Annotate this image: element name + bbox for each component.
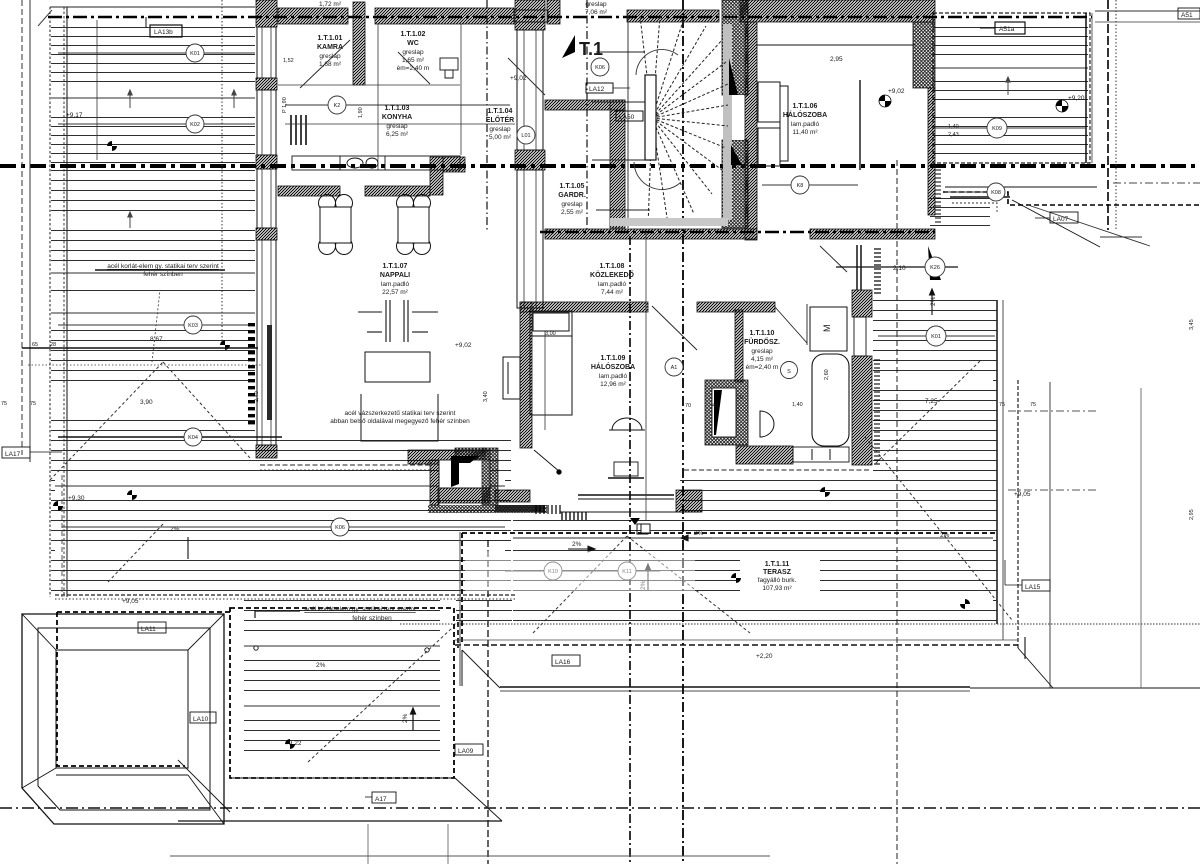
wall bedroom6 right upper (913, 22, 935, 88)
svg-text:K02: K02 (190, 122, 200, 128)
svg-text:ELŐTÉR: ELŐTÉR (486, 115, 514, 124)
deck border top-right area dashed (933, 13, 1090, 163)
svg-text:GARDR.: GARDR. (558, 192, 586, 199)
label box LA11 (138, 622, 166, 633)
svg-text:2%: 2% (572, 541, 582, 548)
deck area right of building (873, 300, 997, 517)
wall west bottom pier (256, 445, 277, 458)
terrace dash border vertical left of court (457, 614, 459, 648)
svg-text:2,95: 2,95 (1189, 509, 1195, 520)
wall bedroom6 left (745, 22, 757, 240)
window west 2 (257, 90, 276, 155)
svg-text:LA12: LA12 (589, 86, 605, 93)
misc thin interior lines (22, 20, 646, 520)
construction line x1108 (1107, 0, 1109, 230)
svg-text:LA13b: LA13b (154, 29, 173, 36)
svg-text:lam.padló: lam.padló (599, 373, 628, 380)
dim line y527 (62, 526, 505, 528)
svg-text:40: 40 (712, 403, 718, 409)
svg-text:1,90: 1,90 (358, 107, 364, 118)
svg-text:K01: K01 (931, 334, 941, 340)
svg-text:M: M (822, 325, 832, 333)
sill bathroom door (793, 447, 849, 462)
svg-text:2,43: 2,43 (948, 132, 959, 138)
terrace right corner diagonal (1018, 648, 1200, 688)
svg-text:75: 75 (1030, 402, 1036, 408)
window west dark frame bar (267, 325, 272, 420)
construction line x683 heavy dash-dot (682, 0, 684, 864)
svg-text:K06: K06 (335, 525, 345, 531)
tick comb right wall top (935, 170, 941, 222)
svg-text:lam.padló: lam.padló (791, 121, 820, 128)
svg-text:3,40: 3,40 (483, 391, 489, 402)
svg-text:LA09: LA09 (458, 748, 474, 755)
circle K06 top (591, 58, 609, 76)
dim line y325 (58, 324, 250, 326)
svg-text:+9,20: +9,20 (1068, 95, 1085, 102)
wall mid band kozlekedo/haloszoba (520, 302, 648, 312)
label kamra (317, 35, 343, 68)
wall bedroom6 right thin (928, 88, 935, 215)
terrace railing bold dashed (462, 533, 995, 645)
svg-text:NAPPALI: NAPPALI (380, 272, 410, 279)
svg-text:1.T.1.07: 1.T.1.07 (383, 263, 408, 270)
corner roof edge lines (945, 187, 1100, 247)
svg-text:75: 75 (1, 401, 7, 407)
section line main (middle) (0, 164, 1200, 168)
window east-wall 1 (517, 30, 543, 150)
svg-text:LA17: LA17 (5, 451, 21, 458)
svg-text:WC: WC (407, 40, 419, 47)
svg-text:2,60: 2,60 (824, 369, 830, 380)
big terrace dashed right border (1017, 380, 1019, 648)
wall bathroom left strip (735, 310, 743, 382)
bottom edge line (170, 855, 770, 857)
svg-text:20: 20 (737, 395, 743, 401)
deck area left upper (terrace boards) (51, 20, 255, 163)
svg-text:K26: K26 (930, 265, 940, 271)
dim line y192 (945, 191, 1005, 193)
label box LA09 (455, 744, 483, 755)
svg-text:22,57 m²: 22,57 m² (382, 289, 408, 296)
svg-text:abban belső oldalával megegyez: abban belső oldalával megegyező fehér sz… (330, 418, 470, 425)
svg-text:1.T.1.09: 1.T.1.09 (601, 355, 626, 362)
court diagonal dashed (308, 628, 452, 762)
court slope arrow (411, 708, 416, 730)
comb right x875 (874, 249, 881, 293)
svg-text:+9,02: +9,02 (888, 88, 905, 95)
wall band below stairs (545, 229, 757, 239)
svg-text:11,40 m²: 11,40 m² (792, 129, 818, 136)
door wedge stairs 1 (729, 58, 738, 95)
svg-text:LA50: LA50 (619, 114, 635, 121)
threshold dashes below bathroom (684, 469, 870, 471)
stairs right gray strip (723, 24, 732, 220)
wall west pier 3 (256, 228, 277, 240)
svg-text:P 1,90: P 1,90 (282, 97, 288, 113)
big terrace right border (996, 300, 998, 624)
construction line x487 dashed (487, 540, 489, 864)
svg-text:2,95: 2,95 (830, 56, 843, 63)
svg-text:1,72 m²: 1,72 m² (319, 1, 342, 8)
svg-text:70: 70 (685, 403, 691, 409)
door swing haloszoba9 (652, 306, 697, 350)
window east-wall 2 tall (517, 170, 543, 308)
court outer band (178, 760, 502, 824)
svg-text:KONYHA: KONYHA (382, 114, 412, 121)
comb konyha left (291, 115, 306, 145)
label haloszoba9 (591, 355, 635, 388)
circle S bathroom (781, 362, 798, 379)
svg-text:7,06 m²: 7,06 m² (585, 9, 608, 16)
svg-text:3,45: 3,45 (1189, 319, 1195, 330)
right level dash lines (1008, 410, 1098, 412)
svg-text:K03: K03 (188, 323, 198, 329)
section line top (48, 16, 1092, 19)
svg-text:1.T.1.06: 1.T.1.06 (793, 103, 818, 110)
label box LA50 (616, 111, 643, 121)
note nappali (330, 410, 470, 425)
svg-text:4,15 m²: 4,15 m² (751, 356, 774, 363)
label box A17 (365, 792, 396, 803)
wall west pier 1 (256, 78, 277, 90)
corner long diagonals (1028, 205, 1150, 246)
door swing eloter (508, 58, 545, 95)
terrace outer right edge (1049, 382, 1051, 688)
stair bottom gray strip (610, 218, 728, 226)
deck area top right (933, 20, 1088, 160)
dim line y128 topright (935, 127, 1086, 129)
wall top band kitchen left (278, 8, 348, 24)
glyph triangle door9 (630, 518, 640, 525)
wall bathroom right lower (852, 356, 872, 465)
svg-text:2%: 2% (930, 296, 937, 306)
watermark light band (465, 551, 695, 591)
terrace 2% right arrow (568, 546, 595, 552)
svg-text:+9,05: +9,05 (1014, 491, 1031, 498)
construction line x897 dashed (896, 160, 898, 864)
svg-text:1,68 m²: 1,68 m² (319, 61, 342, 68)
svg-text:12,96 m²: 12,96 m² (600, 381, 626, 388)
dim line y336 right (878, 335, 995, 337)
bathtub (812, 354, 849, 446)
deck area big terrace bottom (513, 517, 997, 624)
svg-text:HÁLÓSZOBA: HÁLÓSZOBA (783, 110, 827, 119)
svg-text:acél korlát-elem gy. statikai: acél korlát-elem gy. statikai terv szeri… (304, 606, 416, 613)
svg-text:2%: 2% (402, 713, 409, 723)
window west 4 tall (nappali) (257, 240, 276, 445)
svg-text:K2: K2 (334, 103, 341, 109)
svg-text:75: 75 (999, 402, 1005, 408)
deck up arrows (128, 77, 1010, 228)
svg-text:greslap: greslap (489, 126, 511, 133)
svg-text:+9,02: +9,02 (455, 342, 472, 349)
section line below stairs (540, 231, 935, 233)
window west 3 (257, 169, 276, 228)
svg-text:HÁLÓSZOBA: HÁLÓSZOBA (591, 362, 635, 371)
svg-text:acél korlát-elem gy. statikai: acél korlát-elem gy. statikai terv szeri… (107, 263, 219, 270)
window bars bedroom6 south (856, 245, 858, 290)
svg-text:greslap: greslap (585, 1, 607, 8)
svg-text:lam.padló: lam.padló (381, 281, 410, 288)
svg-text:K06: K06 (595, 65, 605, 71)
wall top band wc (375, 8, 514, 24)
svg-text:K01: K01 (190, 51, 200, 57)
drain square symbol (641, 524, 650, 533)
svg-text:1,65 m²: 1,65 m² (402, 57, 425, 64)
construction line x487 top (486, 0, 488, 232)
left inner dash vertical (61, 475, 63, 597)
wall east-wall pier (515, 150, 545, 170)
deck bottom dashed border (55, 594, 515, 596)
svg-text:FÜRDŐSZ.: FÜRDŐSZ. (744, 337, 780, 346)
svg-text:2,55 m²: 2,55 m² (561, 209, 584, 216)
wall gardr right vertical (610, 100, 625, 228)
court dashed border frame (230, 608, 454, 778)
svg-text:fehér színben: fehér színben (143, 271, 183, 278)
svg-text:greslap: greslap (319, 53, 341, 60)
note court (304, 606, 416, 622)
svg-text:A51a: A51a (999, 26, 1015, 33)
wall stairs right crosshatched (722, 0, 748, 95)
svg-text:28: 28 (50, 342, 56, 348)
deck bottom second dotted border (55, 598, 515, 600)
svg-text:acél vázszerkezetű statikai t: acél vázszerkezetű statikai terv szerint (345, 410, 456, 417)
svg-text:1,52: 1,52 (283, 58, 294, 64)
svg-text:greslap: greslap (402, 49, 424, 56)
wall gardr top band (545, 100, 625, 110)
comb ticks door9 left (562, 512, 586, 520)
bottom dash-dot line (0, 807, 1200, 809)
big terrace dotted bottom border (400, 623, 1200, 625)
terrace border step corner (455, 645, 1200, 691)
bed bedroom6 (757, 45, 915, 170)
dim line y571 (505, 570, 660, 572)
deck left border double line (50, 7, 255, 597)
comb left x250 (248, 323, 255, 424)
deck gap mid lines (51, 68, 1088, 706)
svg-text:1.T.1.01: 1.T.1.01 (318, 35, 343, 42)
label terasz (758, 561, 797, 592)
label box LA17 (2, 447, 62, 458)
wall kitchen corner block (430, 157, 443, 195)
svg-text:1,40: 1,40 (948, 124, 959, 130)
door wedge bedroom6 (928, 246, 941, 280)
court outer band lines (178, 760, 502, 821)
svg-text:ém=2,40 m: ém=2,40 m (397, 65, 430, 72)
toilet bathroom (760, 411, 774, 437)
label box LA13b (146, 17, 182, 37)
deck top-right solid right border (1085, 13, 1087, 163)
window west 1 (257, 27, 276, 78)
wall east window-wall top block (515, 0, 545, 30)
label box LA10 (190, 712, 216, 723)
svg-text:75: 75 (30, 401, 36, 407)
label furdoszoba (744, 330, 780, 371)
dim line y437 (58, 436, 282, 438)
svg-text:K04: K04 (188, 435, 198, 441)
kitchen counter (292, 156, 460, 170)
label box LA12 (586, 83, 630, 93)
svg-text:lam.padló: lam.padló (598, 281, 627, 288)
gate miter diagonals (22, 614, 224, 824)
svg-text:1.T.1.11: 1.T.1.11 (765, 561, 790, 568)
wc fixture (440, 58, 458, 78)
svg-text:KAMRA: KAMRA (317, 44, 343, 51)
svg-text:+9,17: +9,17 (66, 112, 83, 119)
wall bedroom6 top band (740, 0, 935, 22)
dim line y105 konyha (285, 104, 510, 106)
svg-text:K8: K8 (797, 183, 804, 189)
circle tiny texts (188, 51, 1002, 575)
left deck inverted V (50, 362, 250, 480)
nappali table (365, 352, 430, 382)
terrace second bottom line (455, 639, 1018, 641)
svg-text:K08: K08 (991, 190, 1001, 196)
wall stub left of stairs top (547, 0, 560, 24)
svg-text:greslap: greslap (751, 348, 773, 355)
svg-text:LA11: LA11 (141, 626, 156, 633)
gate outer frame (22, 614, 224, 824)
small deck patch right of court (456, 598, 512, 624)
svg-text:T.1: T.1 (579, 39, 603, 59)
svg-text:2,10: 2,10 (893, 265, 906, 272)
label box LA07 (1035, 212, 1078, 223)
comb sill haloszoba9 (536, 505, 560, 514)
top right corner lines (1095, 10, 1200, 12)
window bathroom right (854, 317, 866, 356)
label eloter (486, 108, 514, 141)
wall bathroom right pier top (852, 290, 872, 317)
deck area left lower wide (51, 432, 511, 597)
svg-text:+9,30: +9,30 (68, 495, 85, 502)
gray verticals below court (367, 824, 369, 864)
wall band below konyha (278, 186, 340, 196)
stair spindle (645, 75, 656, 160)
svg-text:A51: A51 (1181, 12, 1193, 19)
nappali sofa (361, 394, 438, 441)
note left deck (107, 263, 219, 278)
vertical line right of nappali door (459, 532, 461, 686)
label box LA15 (1005, 560, 1050, 591)
door swing to bathroom (820, 246, 847, 272)
wall west pier 2 (256, 155, 277, 169)
wall stub right of door9 (676, 490, 702, 512)
top-left corner diagonal (38, 10, 52, 26)
svg-text:L01: L01 (521, 133, 530, 139)
slope arrows (188, 289, 1025, 659)
construction line x587 dash-dot (586, 0, 588, 230)
gate inner opening (56, 650, 188, 775)
label kozlekedo (590, 263, 635, 296)
deck small left of corner (930, 190, 990, 228)
wall vertical kamra/wc divider (353, 2, 365, 85)
svg-text:LA10: LA10 (193, 716, 209, 723)
stair walk arcs (636, 49, 678, 75)
note leader left (95, 269, 225, 271)
svg-text:LA16: LA16 (555, 659, 571, 666)
svg-text:A1: A1 (671, 365, 678, 371)
svg-text:1.T.1.02: 1.T.1.02 (401, 31, 426, 38)
label gardr (558, 183, 586, 216)
chair haloszoba9 (609, 418, 645, 430)
note leader court (255, 611, 300, 618)
svg-text:1.T.1.05: 1.T.1.05 (560, 183, 585, 190)
svg-text:+2,20: +2,20 (756, 653, 773, 660)
left arrow big terrace (681, 535, 712, 541)
deck area center court (244, 598, 440, 753)
dim line y124 (58, 123, 255, 125)
deck white gaps (51, 60, 1088, 712)
svg-text:2%: 2% (316, 662, 326, 669)
wall bathroom bottom (736, 446, 793, 464)
window top eloter (514, 10, 548, 22)
svg-text:K09: K09 (992, 126, 1002, 132)
dim line y53 (58, 52, 255, 54)
door wedge nappali terrace (428, 448, 547, 513)
door wedge stairs 2 (731, 145, 742, 165)
svg-text:TERASZ: TERASZ (763, 569, 792, 576)
door swing kamra (300, 40, 350, 88)
bed haloszoba9 (503, 311, 572, 415)
svg-text:3,00: 3,00 (545, 331, 556, 337)
wall stairs top band (627, 10, 719, 22)
nappali shelf bars (358, 300, 438, 342)
svg-text:107,93 m²: 107,93 m² (762, 585, 792, 592)
svg-text:1,40: 1,40 (792, 402, 803, 408)
deck area below bedroom (680, 478, 873, 515)
svg-text:3,90: 3,90 (140, 399, 153, 406)
circle room6 (762, 184, 858, 186)
stair fan rays (640, 16, 728, 226)
svg-text:1.T.1.03: 1.T.1.03 (385, 105, 410, 112)
svg-text:KÖZLEKEDŐ: KÖZLEKEDŐ (590, 270, 635, 279)
deck area left middle (51, 170, 255, 432)
svg-text:1.T.1.08: 1.T.1.08 (600, 263, 625, 270)
washing machine M (810, 307, 847, 351)
right thin vertical (1140, 388, 1142, 688)
chimney block bathroom (705, 380, 748, 445)
label box A5xA top right (1178, 8, 1200, 19)
wall nappali bottom (terrace door area) (408, 450, 490, 464)
stool haloszoba9 (608, 462, 644, 478)
dining table 1 with chairs (319, 195, 353, 255)
svg-text:8,67: 8,67 (150, 336, 163, 343)
label nappali (380, 263, 410, 296)
label box A51a (980, 22, 1025, 34)
construction line x630 heavy dash-dot (629, 236, 631, 864)
terrace diagonals (108, 361, 1012, 633)
right margin dash line (1113, 182, 1200, 184)
label box LA16 (552, 655, 580, 666)
dashed threshold lines nappali (260, 464, 432, 466)
sliding door sill haloszoba9 (534, 450, 700, 512)
marker T.1 triangle (562, 35, 575, 58)
construction line x1116 dotted (1115, 0, 1117, 230)
svg-text:LA15: LA15 (1025, 584, 1041, 591)
threshold dark band (495, 505, 545, 512)
door swing bathroom (775, 307, 807, 343)
svg-text:fehér színben: fehér színben (352, 615, 392, 622)
dining table 2 with chairs (397, 195, 431, 255)
railing dashed over gate (57, 612, 230, 766)
svg-text:A17: A17 (375, 796, 387, 803)
svg-text:6,25 m²: 6,25 m² (386, 131, 409, 138)
svg-text:1.T.1.10: 1.T.1.10 (750, 330, 775, 337)
dim line y267 (836, 266, 958, 268)
construction line x22 (21, 0, 23, 455)
door swing wc (398, 52, 430, 84)
